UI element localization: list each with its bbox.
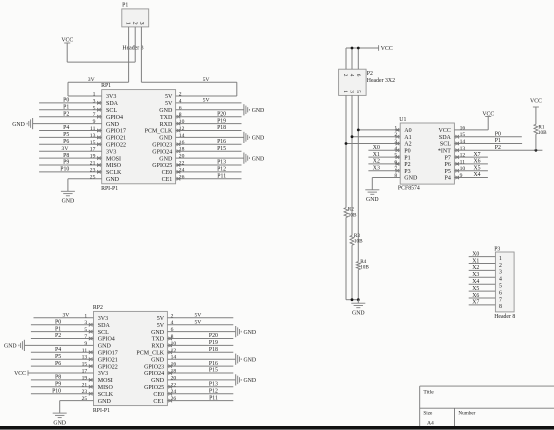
- svg-text:MISO: MISO: [106, 163, 122, 169]
- svg-text:*INT: *INT: [438, 149, 451, 155]
- svg-text:7: 7: [84, 334, 87, 340]
- svg-text:CE0: CE0: [153, 392, 164, 398]
- svg-text:17: 17: [82, 369, 88, 375]
- svg-text:GPIO24: GPIO24: [144, 371, 164, 377]
- svg-text:P2: P2: [404, 162, 410, 168]
- svg-text:P0: P0: [63, 98, 69, 104]
- svg-text:1: 1: [499, 256, 502, 262]
- svg-text:P1: P1: [55, 326, 61, 332]
- svg-text:GND: GND: [366, 197, 379, 203]
- svg-text:21: 21: [82, 382, 88, 388]
- svg-text:GPIO21: GPIO21: [106, 136, 126, 142]
- svg-text:A4: A4: [427, 421, 434, 427]
- svg-text:Header 3X2: Header 3X2: [367, 78, 395, 84]
- svg-text:GND: GND: [159, 136, 173, 142]
- svg-text:GND: GND: [53, 420, 66, 426]
- svg-text:6: 6: [499, 290, 502, 296]
- svg-text:14: 14: [171, 355, 177, 361]
- svg-text:GPIO17: GPIO17: [98, 351, 118, 357]
- svg-text:7: 7: [93, 112, 96, 118]
- svg-text:P16: P16: [217, 139, 226, 145]
- svg-text:RPI-P1: RPI-P1: [93, 408, 110, 414]
- svg-text:8: 8: [499, 304, 502, 310]
- svg-text:P13: P13: [209, 382, 218, 388]
- svg-text:X4: X4: [472, 279, 479, 285]
- svg-text:Number: Number: [458, 411, 475, 417]
- svg-text:2: 2: [131, 22, 137, 25]
- svg-text:SCL: SCL: [440, 142, 451, 148]
- svg-text:P1: P1: [63, 105, 69, 111]
- svg-text:3V3: 3V3: [98, 371, 108, 377]
- svg-text:25: 25: [82, 396, 88, 402]
- svg-text:GPIO17: GPIO17: [106, 129, 126, 135]
- svg-text:TXD: TXD: [160, 115, 173, 121]
- svg-text:P7: P7: [445, 155, 451, 161]
- svg-text:5V: 5V: [203, 77, 210, 83]
- svg-text:P0: P0: [404, 149, 410, 155]
- svg-text:3V3: 3V3: [98, 316, 108, 322]
- svg-text:PCF8574: PCF8574: [398, 186, 420, 192]
- svg-text:P0: P0: [495, 131, 501, 137]
- svg-text:P2: P2: [55, 333, 61, 339]
- svg-text:P19: P19: [209, 340, 218, 346]
- svg-text:SDA: SDA: [106, 101, 119, 107]
- svg-text:SCLK: SCLK: [98, 392, 114, 398]
- svg-text:VCC: VCC: [61, 38, 73, 44]
- svg-text:Size: Size: [423, 411, 433, 417]
- svg-text:PCM_CLK: PCM_CLK: [145, 129, 173, 135]
- svg-text:5V: 5V: [194, 319, 201, 325]
- svg-text:RXD: RXD: [160, 122, 173, 128]
- svg-text:15: 15: [460, 132, 466, 138]
- svg-text:5V: 5V: [157, 316, 165, 322]
- svg-text:13: 13: [82, 355, 88, 361]
- svg-text:13: 13: [460, 146, 466, 152]
- svg-text:10B: 10B: [348, 212, 357, 218]
- svg-text:MOSI: MOSI: [106, 156, 121, 162]
- svg-text:P9: P9: [63, 160, 69, 166]
- svg-text:7: 7: [499, 297, 502, 303]
- svg-text:10B: 10B: [354, 238, 363, 244]
- svg-text:9: 9: [84, 341, 87, 347]
- svg-text:X2: X2: [373, 159, 380, 165]
- svg-text:1: 1: [342, 90, 348, 93]
- svg-text:VCC: VCC: [381, 46, 393, 52]
- svg-text:SCLK: SCLK: [106, 170, 122, 176]
- svg-text:6: 6: [179, 105, 182, 111]
- svg-text:X5: X5: [472, 286, 479, 292]
- svg-text:P10: P10: [60, 167, 69, 173]
- svg-text:P5: P5: [445, 169, 451, 175]
- svg-text:1: 1: [84, 313, 87, 319]
- svg-text:P1: P1: [495, 138, 501, 144]
- svg-text:23: 23: [82, 389, 88, 395]
- svg-text:X1: X1: [373, 152, 380, 158]
- svg-text:P10: P10: [52, 388, 61, 394]
- svg-text:3V3: 3V3: [106, 94, 116, 100]
- svg-text:3: 3: [138, 22, 144, 25]
- svg-text:P0: P0: [55, 319, 61, 325]
- svg-text:12: 12: [460, 153, 466, 159]
- svg-text:8: 8: [394, 173, 397, 179]
- svg-text:21: 21: [90, 161, 96, 167]
- svg-text:P18: P18: [217, 125, 226, 131]
- svg-text:5V: 5V: [194, 313, 201, 319]
- svg-text:Header 8: Header 8: [494, 314, 515, 320]
- svg-text:MISO: MISO: [98, 385, 114, 391]
- svg-text:P12: P12: [217, 167, 226, 173]
- svg-text:P2: P2: [63, 111, 69, 117]
- svg-text:GND: GND: [106, 177, 120, 183]
- svg-text:P18: P18: [209, 347, 218, 353]
- svg-text:RPI-P1: RPI-P1: [101, 186, 118, 192]
- svg-text:GND: GND: [244, 378, 257, 384]
- svg-text:GND: GND: [4, 344, 17, 350]
- svg-text:P9: P9: [55, 382, 61, 388]
- svg-text:X0: X0: [472, 251, 479, 257]
- svg-text:2: 2: [342, 74, 348, 77]
- svg-text:GND: GND: [244, 357, 257, 363]
- svg-text:1: 1: [93, 92, 96, 98]
- svg-text:10B: 10B: [538, 130, 547, 136]
- svg-text:P2: P2: [367, 71, 373, 77]
- svg-text:20: 20: [171, 375, 177, 381]
- svg-text:5V: 5V: [203, 98, 210, 104]
- svg-text:GND: GND: [159, 108, 173, 114]
- svg-text:5V: 5V: [165, 94, 173, 100]
- svg-text:5: 5: [499, 284, 502, 290]
- svg-text:X3: X3: [472, 272, 479, 278]
- svg-text:CE1: CE1: [162, 177, 173, 183]
- svg-text:11: 11: [82, 348, 88, 354]
- svg-text:23: 23: [90, 167, 96, 173]
- svg-text:X3: X3: [373, 165, 380, 171]
- svg-text:3V: 3V: [62, 313, 69, 319]
- svg-text:VCC: VCC: [439, 128, 451, 134]
- svg-text:P19: P19: [217, 118, 226, 124]
- svg-text:PCM_CLK: PCM_CLK: [136, 351, 164, 357]
- svg-text:14: 14: [179, 133, 185, 139]
- svg-text:2: 2: [171, 313, 174, 319]
- svg-text:P11: P11: [209, 395, 218, 401]
- svg-text:P6: P6: [445, 162, 451, 168]
- svg-text:2: 2: [499, 263, 502, 269]
- svg-text:GND: GND: [151, 357, 165, 363]
- svg-text:2: 2: [179, 92, 182, 98]
- svg-text:A0: A0: [404, 128, 411, 134]
- svg-text:5: 5: [84, 327, 87, 333]
- svg-text:9: 9: [460, 173, 463, 179]
- svg-text:3V: 3V: [88, 77, 95, 83]
- svg-text:P13: P13: [217, 160, 226, 166]
- svg-text:GND: GND: [352, 310, 365, 316]
- svg-text:P1: P1: [404, 155, 410, 161]
- svg-text:P20: P20: [209, 333, 218, 339]
- svg-text:3: 3: [499, 270, 502, 276]
- svg-text:U1: U1: [399, 117, 406, 123]
- svg-text:4: 4: [171, 320, 174, 326]
- svg-text:11: 11: [90, 126, 96, 132]
- svg-text:P8: P8: [63, 153, 69, 159]
- svg-text:Title: Title: [423, 389, 434, 395]
- svg-text:X4: X4: [474, 172, 481, 178]
- svg-text:GND: GND: [252, 136, 265, 142]
- svg-text:GND: GND: [106, 122, 120, 128]
- svg-text:P2: P2: [495, 145, 501, 151]
- svg-text:GND: GND: [151, 378, 165, 384]
- svg-text:X7: X7: [474, 152, 481, 158]
- svg-text:P4: P4: [445, 176, 451, 182]
- svg-text:SCL: SCL: [106, 108, 117, 114]
- svg-text:4: 4: [179, 98, 182, 104]
- svg-text:GPIO4: GPIO4: [106, 115, 123, 121]
- svg-text:GPIO25: GPIO25: [152, 163, 172, 169]
- svg-text:3V: 3V: [62, 146, 69, 152]
- svg-text:11: 11: [460, 159, 466, 165]
- svg-text:P20: P20: [217, 111, 226, 117]
- svg-text:20: 20: [179, 154, 185, 160]
- svg-text:13: 13: [90, 133, 96, 139]
- svg-text:P12: P12: [209, 388, 218, 394]
- svg-text:GND: GND: [404, 176, 418, 182]
- svg-text:1: 1: [124, 22, 130, 25]
- svg-text:GND: GND: [151, 330, 165, 336]
- svg-text:GPIO23: GPIO23: [144, 364, 164, 370]
- svg-text:GPIO22: GPIO22: [106, 143, 126, 149]
- svg-text:GND: GND: [62, 199, 75, 205]
- svg-text:X5: X5: [474, 165, 481, 171]
- svg-text:P3: P3: [494, 246, 500, 252]
- svg-text:P4: P4: [63, 125, 69, 131]
- svg-text:25: 25: [90, 174, 96, 180]
- svg-text:X6: X6: [474, 159, 481, 165]
- svg-text:GND: GND: [159, 156, 173, 162]
- svg-text:Header 3: Header 3: [122, 46, 143, 52]
- svg-text:RP1: RP1: [101, 83, 111, 89]
- svg-text:X0: X0: [373, 145, 380, 151]
- svg-text:GND: GND: [98, 399, 112, 405]
- svg-text:15: 15: [90, 140, 96, 146]
- svg-text:3: 3: [93, 98, 96, 104]
- svg-text:9: 9: [93, 119, 96, 125]
- svg-text:SDA: SDA: [98, 323, 111, 329]
- svg-text:17: 17: [90, 147, 96, 153]
- svg-text:GPIO21: GPIO21: [98, 357, 118, 363]
- svg-text:GND: GND: [244, 330, 257, 336]
- svg-text:GPIO23: GPIO23: [152, 143, 172, 149]
- svg-text:P1: P1: [122, 3, 128, 9]
- svg-text:19: 19: [90, 154, 96, 160]
- svg-text:3: 3: [84, 320, 87, 326]
- svg-text:X1: X1: [472, 258, 479, 264]
- svg-text:GND: GND: [12, 122, 25, 128]
- svg-text:4: 4: [348, 74, 354, 77]
- svg-text:A2: A2: [404, 142, 411, 148]
- svg-text:P8: P8: [55, 375, 61, 381]
- svg-text:6: 6: [355, 74, 361, 77]
- svg-text:GND: GND: [252, 108, 265, 114]
- svg-text:GPIO25: GPIO25: [144, 385, 164, 391]
- svg-text:14: 14: [460, 139, 466, 145]
- svg-text:5: 5: [93, 105, 96, 111]
- svg-text:GND: GND: [98, 344, 112, 350]
- svg-text:P15: P15: [209, 368, 218, 374]
- svg-text:5: 5: [355, 90, 361, 93]
- svg-text:SDA: SDA: [439, 135, 452, 141]
- svg-text:5V: 5V: [157, 323, 165, 329]
- svg-text:10: 10: [460, 166, 466, 172]
- svg-text:GPIO4: GPIO4: [98, 337, 115, 343]
- svg-text:4: 4: [499, 277, 502, 283]
- svg-text:CE0: CE0: [162, 170, 173, 176]
- svg-text:VCC: VCC: [14, 371, 26, 377]
- svg-text:P3: P3: [404, 169, 410, 175]
- svg-text:5V: 5V: [165, 101, 173, 107]
- svg-text:SCL: SCL: [98, 330, 109, 336]
- svg-text:P6: P6: [55, 361, 61, 367]
- svg-text:RP2: RP2: [93, 305, 103, 311]
- svg-text:VCC: VCC: [530, 99, 542, 105]
- svg-text:X2: X2: [472, 265, 479, 271]
- svg-text:CE1: CE1: [153, 399, 164, 405]
- svg-text:19: 19: [82, 375, 88, 381]
- svg-text:GPIO22: GPIO22: [98, 364, 118, 370]
- svg-text:P5: P5: [55, 354, 61, 360]
- svg-text:15: 15: [82, 362, 88, 368]
- svg-text:P11: P11: [217, 174, 226, 180]
- svg-text:VCC: VCC: [482, 112, 494, 118]
- svg-text:P15: P15: [217, 146, 226, 152]
- svg-text:MOSI: MOSI: [98, 378, 113, 384]
- svg-text:10B: 10B: [360, 265, 369, 271]
- svg-text:P6: P6: [63, 139, 69, 145]
- svg-text:GPIO24: GPIO24: [152, 149, 172, 155]
- svg-text:P4: P4: [55, 347, 61, 353]
- svg-text:TXD: TXD: [152, 337, 165, 343]
- svg-text:3: 3: [348, 90, 354, 93]
- svg-text:GND: GND: [252, 156, 265, 162]
- svg-text:16: 16: [460, 125, 466, 131]
- svg-text:3V3: 3V3: [106, 149, 116, 155]
- svg-text:6: 6: [171, 327, 174, 333]
- svg-text:P5: P5: [63, 132, 69, 138]
- svg-text:A1: A1: [404, 135, 411, 141]
- svg-text:X7: X7: [472, 300, 479, 306]
- svg-text:P16: P16: [209, 361, 218, 367]
- svg-text:RXD: RXD: [151, 344, 164, 350]
- svg-text:X6: X6: [472, 293, 479, 299]
